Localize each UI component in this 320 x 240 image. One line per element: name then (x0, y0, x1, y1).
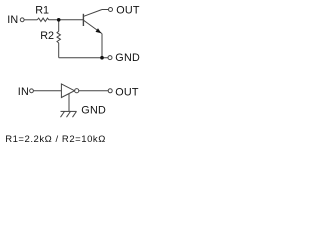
svg-text:OUT: OUT (116, 5, 140, 17)
svg-text:IN: IN (18, 86, 29, 98)
svg-text:OUT: OUT (115, 86, 139, 98)
svg-text:R1=2.2kΩ / R2=10kΩ: R1=2.2kΩ / R2=10kΩ (5, 134, 106, 145)
svg-text:GND: GND (81, 104, 106, 116)
svg-text:R2: R2 (40, 30, 54, 42)
svg-text:IN: IN (7, 14, 18, 26)
svg-text:GND: GND (115, 52, 140, 64)
svg-text:R1: R1 (35, 4, 49, 16)
